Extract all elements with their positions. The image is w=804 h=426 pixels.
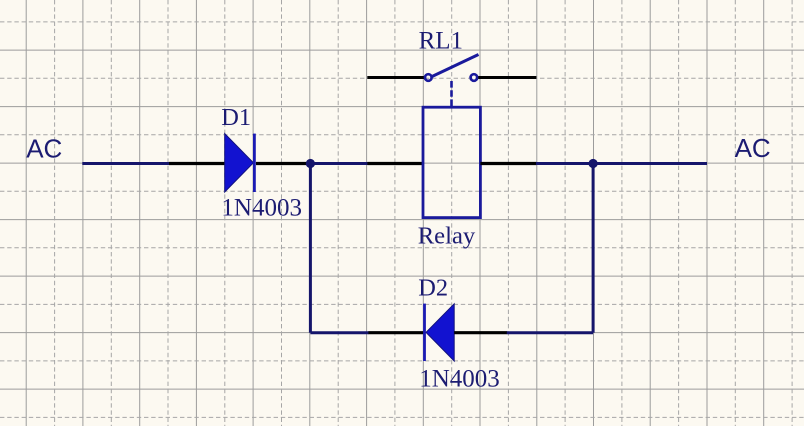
wire relay to right junction and AC-right [536, 162, 707, 165]
wire left junction to relay pin [310, 162, 368, 165]
svg-text:D2: D2 [418, 275, 448, 302]
junction node right [589, 159, 598, 168]
svg-text:1N4003: 1N4003 [221, 194, 302, 221]
svg-text:RL1: RL1 [419, 27, 463, 54]
relay RL1 coil box [423, 107, 480, 217]
wire D1 anode pin (pin 2) [169, 162, 226, 165]
wire right junction vertical drop [592, 164, 595, 333]
svg-text:AC: AC [26, 133, 62, 163]
diode D2 triangle [426, 304, 454, 361]
wire AC-left to D1 pin [82, 162, 170, 165]
wire RL1 switch pin right [478, 76, 536, 79]
svg-text:D1: D1 [221, 104, 251, 131]
diode D1 cathode bar [253, 134, 256, 192]
wire bottom left horizontal [310, 331, 368, 334]
wire D2 cathode pin [368, 331, 424, 334]
junction node left [306, 159, 315, 168]
switch RL1 left contact circle [425, 74, 432, 81]
wire D2 anode pin [454, 331, 507, 334]
wire relay coil pin 1 (left) [367, 162, 423, 165]
wire RL1 switch pin left [367, 76, 424, 79]
diode D2 cathode bar [423, 304, 426, 361]
wire left junction vertical drop [309, 164, 312, 333]
svg-text:1N4003: 1N4003 [419, 365, 500, 392]
wire relay coil pin 2 (right) [480, 162, 536, 165]
switch RL1 blade [432, 55, 479, 77]
wire D1 cathode pin (pin 1) [256, 162, 311, 165]
switch RL1 right contact circle [471, 74, 478, 81]
diode D1 triangle [225, 134, 254, 192]
wire bottom right horizontal [507, 331, 593, 334]
svg-text:AC: AC [735, 133, 771, 163]
dashed mechanical link RL1 to coil [450, 81, 453, 106]
svg-text:Relay: Relay [418, 223, 476, 250]
